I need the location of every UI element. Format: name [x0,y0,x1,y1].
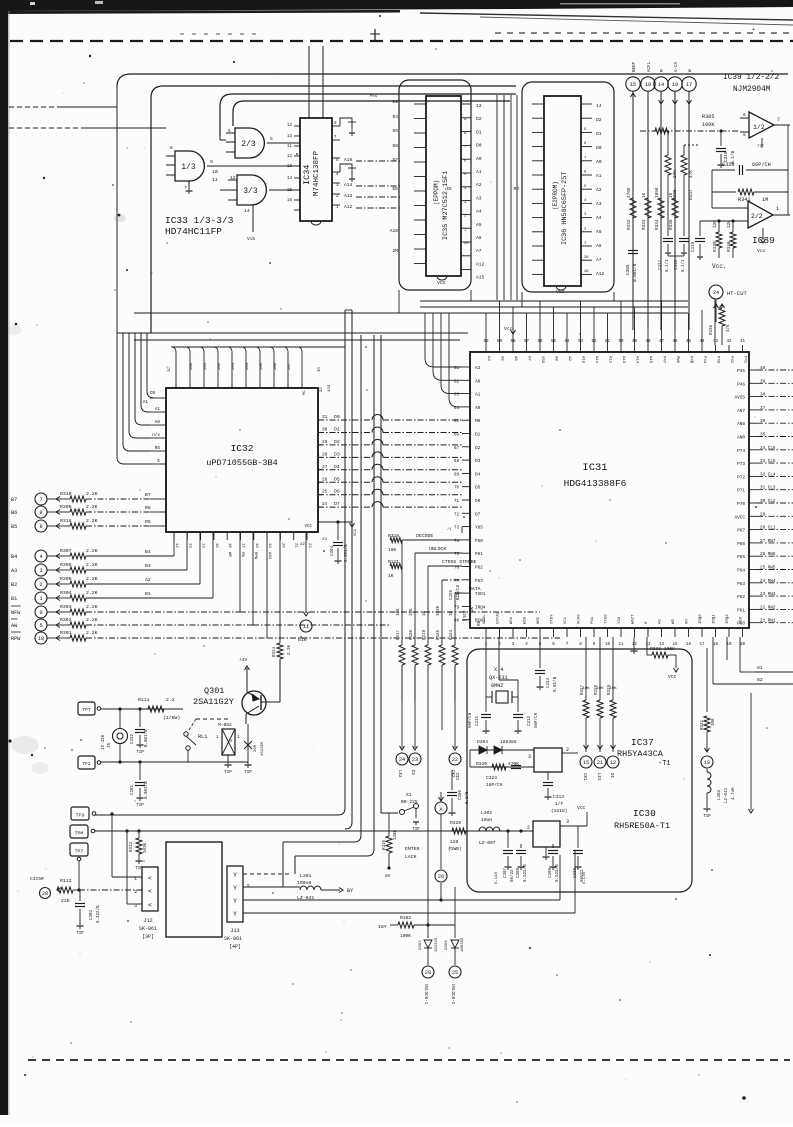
svg-text:2SA11G2Y: 2SA11G2Y [193,697,234,707]
svg-text:24: 24 [322,502,328,507]
svg-text:VCC: VCC [437,280,446,286]
svg-text:A5: A5 [500,356,504,361]
svg-text:D2: D2 [410,770,414,776]
svg-text:133: 133 [328,384,332,392]
svg-text:PW0: PW0 [675,356,679,364]
svg-text:C311: C311 [476,715,480,726]
svg-text:26: 26 [584,270,589,274]
svg-text:2: 2 [39,582,42,588]
svg-text:D3: D3 [475,459,481,464]
svg-text:22: 22 [300,543,305,547]
svg-text:12: 12 [287,124,293,128]
svg-text:C304: C304 [331,545,335,556]
svg-text:23: 23 [322,538,327,542]
svg-text:A82: A82 [267,552,271,560]
svg-text:(3216): (3216) [551,808,568,814]
svg-text:M74HC138FP: M74HC138FP [313,150,321,196]
svg-text:LZ-007: LZ-007 [479,840,496,846]
svg-text:16: 16 [686,643,692,647]
svg-text:A3: A3 [476,195,482,201]
svg-text:Vcb: Vcb [247,236,255,242]
svg-text:0.1/3: 0.1/3 [665,259,670,272]
svg-text:A0: A0 [596,159,602,165]
svg-text:10K: 10K [388,547,397,553]
svg-text:ACFL: ACFL [648,61,652,72]
svg-text:VSS: VSS [540,356,544,364]
svg-text:10K: 10K [712,718,716,726]
svg-text:43: 43 [713,340,719,344]
svg-text:26: 26 [438,874,444,880]
svg-text:5: 5 [270,136,273,142]
svg-text:18: 18 [713,643,719,647]
svg-text:14: 14 [658,82,664,88]
svg-text:IC37: IC37 [631,737,654,748]
svg-text:61: 61 [454,367,460,371]
svg-text:UNLOCK-1: UNLOCK-1 [423,984,427,1005]
svg-text:W20: W20 [524,616,528,624]
svg-text:12: 12 [610,760,616,766]
svg-text:C314: C314 [547,677,551,688]
svg-text:CIC5R: CIC5R [30,876,44,882]
svg-text:P47: P47 [662,356,666,364]
svg-text:P74: P74 [737,449,745,454]
svg-text:DATA: DATA [469,586,481,592]
svg-text:<: < [148,888,152,895]
svg-text:D2: D2 [334,439,340,445]
svg-text:72: 72 [454,513,460,517]
svg-text:1K: 1K [642,192,647,198]
svg-text:21: 21 [597,760,603,766]
svg-text:66P/CH: 66P/CH [752,162,771,168]
svg-text:188385: 188385 [500,739,517,745]
svg-text:IR: IR [318,367,322,372]
svg-text:77F: 77F [757,145,765,149]
svg-text:2B3: 2B3 [232,362,236,370]
svg-text:1/F: 1/F [555,801,564,807]
svg-text:69: 69 [454,473,460,477]
svg-text:-T1: -T1 [658,760,671,768]
svg-text:TIP: TIP [136,751,144,755]
svg-text:HDG413388F6: HDG413388F6 [564,478,627,489]
svg-text:A15: A15 [476,275,485,281]
svg-text:2.2K: 2.2K [86,590,98,596]
svg-text:R320: R320 [476,761,487,767]
svg-text:P60: P60 [475,539,483,544]
svg-text:R336: R336 [710,324,714,335]
svg-text:D4: D4 [392,114,398,120]
svg-text:LE1: LE1 [596,773,600,781]
svg-text:C306: C306 [459,789,463,800]
svg-text:D3M: D3M [254,744,258,752]
svg-text:D2: D2 [596,117,602,123]
svg-text:A0: A0 [475,406,481,411]
svg-text:EE: EE [446,186,452,192]
svg-text:0.001/B: 0.001/B [144,781,149,799]
svg-text:81: 81 [757,665,763,671]
svg-text:A7: A7 [527,356,531,361]
svg-text:D1: D1 [596,131,602,137]
svg-text:103K: 103K [437,605,441,616]
svg-text:13: 13 [476,103,482,109]
svg-text:41: 41 [740,340,746,344]
svg-text:VCC: VCC [354,528,358,536]
svg-text:A2: A2 [596,187,602,193]
svg-text:P71: P71 [737,489,745,494]
svg-text:E: E [157,459,160,464]
svg-text:47K: 47K [689,170,694,178]
svg-text:1/2: 1/2 [753,124,765,131]
svg-text:1S2355: 1S2355 [261,741,265,756]
svg-text:IC39 1/2-2/2: IC39 1/2-2/2 [723,74,779,82]
svg-text:IRQ0: IRQ0 [699,614,703,624]
svg-text:D5: D5 [392,128,398,134]
svg-text:P45: P45 [689,356,693,364]
svg-text:IC31: IC31 [582,462,607,474]
svg-text:76: 76 [454,567,460,571]
svg-text:R337: R337 [689,189,694,200]
svg-text:18P/CH: 18P/CH [486,782,503,788]
svg-text:6: 6 [228,128,231,134]
svg-text:2.2K: 2.2K [86,504,98,510]
svg-text:D1: D1 [476,129,482,135]
svg-text:AN6: AN6 [737,422,745,427]
svg-text:2.2K: 2.2K [86,491,98,497]
svg-text:R333: R333 [642,219,647,230]
svg-text:(EPPOM): (EPPOM) [433,180,440,205]
svg-text:Y: Y [233,911,237,918]
svg-text:J6: J6 [108,742,112,748]
svg-text:A5: A5 [476,222,482,228]
svg-text:VCC: VCC [556,289,565,295]
svg-text:IC: IC [168,367,172,372]
svg-text:A1: A1 [475,393,481,398]
svg-text:11: 11 [287,145,293,149]
svg-text:n/s: n/s [152,433,160,438]
svg-text:VCC: VCC [577,805,586,811]
svg-text:P73: P73 [737,462,745,467]
svg-text:EE: EE [392,186,398,192]
svg-text:Pcs: Pcs [370,95,378,99]
svg-text:A14: A14 [344,182,353,188]
svg-text:A2: A2 [145,577,151,583]
svg-text:0.1/8: 0.1/8 [465,791,470,804]
svg-text:R333: R333 [650,646,661,652]
svg-text:23: 23 [412,757,418,763]
svg-text:A0: A0 [155,420,161,425]
svg-text:WR: WR [227,552,231,557]
svg-text:A7: A7 [596,257,602,263]
svg-text:NFW: NFW [11,610,21,616]
svg-text:TXD1: TXD1 [475,592,486,597]
svg-text:RPW: RPW [253,552,257,560]
svg-text:50/22: 50/22 [510,869,515,882]
svg-text:DECODE: DECODE [416,533,433,539]
svg-text:TIP: TIP [224,771,232,775]
svg-text:2B1: 2B1 [204,362,208,370]
svg-text:C313: C313 [553,794,564,800]
svg-text:A1: A1 [596,173,602,179]
svg-text:R304: R304 [60,590,72,596]
svg-text:AS: AS [659,619,663,624]
svg-text:C319: C319 [692,241,696,252]
svg-text:27: 27 [322,465,328,470]
svg-text:WR: WR [672,619,676,624]
svg-text:I8Y: I8Y [378,924,387,930]
svg-text:A: A [439,807,442,813]
svg-text:A12: A12 [596,271,605,277]
svg-text:TXD0: TXD0 [605,614,609,624]
svg-text:PW: PW [240,552,244,557]
svg-text:R331: R331 [701,719,705,730]
svg-text:65: 65 [454,420,460,424]
svg-text:J12: J12 [143,918,152,924]
svg-text:P41: P41 [743,356,747,364]
svg-text:A1: A1 [476,169,482,175]
svg-text:10uH: 10uH [481,817,492,823]
svg-text:2.2K: 2.2K [86,604,98,610]
svg-text:A6: A6 [596,243,602,249]
svg-text:32: 32 [320,387,324,392]
svg-text:CE2: CE2 [457,772,461,780]
svg-text:D3: D3 [334,451,340,457]
svg-text:56P/CH: 56P/CH [534,712,539,728]
svg-text:R313: R313 [130,841,134,852]
svg-text:P67: P67 [737,529,745,534]
svg-text:R6: R6 [145,505,151,511]
svg-text:9: 9 [39,510,42,516]
svg-text:D6: D6 [334,489,340,495]
svg-text:(1WB): (1WB) [448,846,462,852]
svg-text:27K: 27K [673,170,678,178]
svg-text:8: 8 [39,524,42,530]
svg-text:R5: R5 [155,446,161,451]
svg-text:R308: R308 [60,562,72,568]
svg-text:S1: S1 [406,792,412,798]
svg-text:16: 16 [227,543,231,548]
svg-text:A1: A1 [143,400,149,405]
svg-text:30: 30 [322,427,328,432]
svg-text:A0: A0 [476,156,482,162]
svg-text:15: 15 [214,543,218,548]
svg-text:TF2: TF2 [82,761,91,767]
svg-text:17: 17 [699,643,705,647]
svg-text:12: 12 [230,175,236,181]
svg-text:CB: CB [150,391,156,396]
svg-text:XTAL: XTAL [483,614,487,624]
svg-text:A4: A4 [596,215,602,221]
svg-text:Y: Y [233,885,237,892]
svg-text:B.001/B: B.001/B [144,729,149,747]
svg-text:WAIT: WAIT [632,614,636,624]
svg-text:16: 16 [287,199,293,203]
svg-text:28: 28 [322,452,328,457]
svg-text:12: 12 [287,155,293,159]
svg-text:RH5YA43CA: RH5YA43CA [617,749,664,759]
svg-text:/1: /1 [447,527,452,532]
svg-text:A9: A9 [567,356,571,361]
svg-text:2: 2 [134,889,137,895]
svg-text:6: 6 [743,112,746,118]
svg-text:0.301/B: 0.301/B [344,544,349,562]
svg-text:P62: P62 [737,595,745,600]
svg-text:1M: 1M [762,197,768,203]
svg-text:A3: A3 [11,568,17,574]
svg-text:11: 11 [212,177,218,183]
svg-text:L302: L302 [481,810,492,816]
svg-text:D6: D6 [392,143,398,149]
svg-text:<: < [148,902,152,909]
svg-text:24: 24 [713,290,719,296]
svg-text:100K: 100K [400,933,411,939]
svg-text:2B6: 2B6 [274,362,278,370]
svg-text:VCC: VCC [668,674,677,680]
svg-text:uPD71055GB-3B4: uPD71055GB-3B4 [206,458,277,468]
svg-text:P61: P61 [737,608,745,613]
svg-text:2B0: 2B0 [190,362,194,370]
svg-text:12: 12 [632,643,638,647]
svg-text:C332: C332 [131,733,135,744]
svg-text:R309: R309 [60,504,72,510]
svg-text:5: 5 [743,132,746,138]
svg-text:A3: A3 [596,201,602,207]
svg-text:R340: R340 [727,241,732,252]
svg-text:E-L30: E-L30 [583,871,587,884]
svg-text:13: 13 [287,135,293,139]
svg-text:IC39: IC39 [752,235,775,246]
svg-text:0.322/B: 0.322/B [523,864,528,882]
svg-text:R305: R305 [702,114,714,120]
svg-text:10K: 10K [582,687,590,691]
svg-text:LE2: LE2 [397,770,401,778]
svg-text:24: 24 [399,757,405,763]
svg-text:17: 17 [686,82,692,88]
svg-text:D7: D7 [392,157,398,163]
svg-text:1K: 1K [423,610,427,616]
svg-text:+: + [752,27,755,33]
svg-text:20: 20 [740,643,746,647]
svg-text:D0: D0 [476,143,482,149]
svg-text:2.2: 2.2 [166,697,175,703]
svg-text:A4: A4 [476,209,482,215]
svg-text:R336: R336 [673,189,678,200]
svg-text:NMI: NMI [537,617,541,624]
svg-text:P45: P45 [737,369,745,374]
svg-text:RE: RE [478,620,482,626]
svg-text:B7: B7 [11,497,17,503]
svg-text:D2: D2 [392,99,398,105]
svg-text:25: 25 [464,242,469,246]
svg-text:C308: C308 [517,867,521,878]
svg-text:0.322/B: 0.322/B [555,864,560,882]
svg-text:2M: 2M [392,248,398,254]
svg-text:P63: P63 [475,579,483,584]
svg-text:62: 62 [454,380,460,384]
svg-text:7: 7 [39,497,42,503]
svg-text:20: 20 [425,970,431,976]
svg-text:A6: A6 [476,235,482,241]
svg-text:B7: B7 [145,492,151,498]
svg-text:A1: A1 [155,407,161,412]
svg-text:R332: R332 [627,219,632,230]
svg-text:A16: A16 [390,228,399,234]
svg-text:P62: P62 [475,566,483,571]
svg-text:L303: L303 [718,789,722,800]
svg-text:47K: 47K [727,324,731,332]
svg-text:1/3: 1/3 [181,163,196,172]
svg-text:P63: P63 [737,582,745,587]
svg-text:SCK0: SCK0 [578,614,582,624]
svg-text:R112: R112 [60,878,72,884]
svg-text:13: 13 [287,165,293,169]
svg-text:TF9: TF9 [76,813,85,819]
svg-text:8MHZ: 8MHZ [491,683,503,689]
svg-text:[3P]: [3P] [142,934,154,940]
svg-text:120: 120 [450,839,459,845]
svg-text:IRQ2: IRQ2 [726,614,730,624]
svg-text:71: 71 [454,500,460,504]
svg-text:12: 12 [174,543,178,548]
svg-text:BEEP: BEEP [633,61,637,72]
svg-text:10: 10 [38,636,44,642]
svg-text:D6: D6 [475,499,481,504]
svg-text:7: 7 [584,156,586,160]
svg-text:EXTAL: EXTAL [497,611,501,624]
svg-text:AVSS: AVSS [734,396,745,401]
svg-text:TP7: TP7 [75,849,84,855]
svg-text:0.01/B: 0.01/B [553,676,558,692]
svg-text:WD1: WD1 [510,616,514,624]
svg-text:15: 15 [287,189,293,193]
svg-text:70: 70 [454,487,460,491]
svg-text:A15: A15 [648,356,652,364]
svg-text:IC33 1/3-3/3: IC33 1/3-3/3 [165,215,234,226]
svg-text:TPM: TPM [75,831,84,837]
svg-text:64: 64 [454,407,460,411]
svg-text:CTRSG STROBE: CTRSG STROBE [442,559,477,565]
svg-text:E-110: E-110 [495,871,499,884]
svg-text:3: 3 [134,903,137,909]
svg-text:10: 10 [605,643,611,647]
svg-text:A7: A7 [476,248,482,254]
svg-text:P46: P46 [737,382,745,387]
svg-text:18: 18 [254,543,258,548]
svg-text:IRQ1: IRQ1 [713,614,717,624]
svg-text:C303: C303 [90,909,94,920]
svg-text:BY: BY [347,888,354,894]
svg-text:A5: A5 [596,229,602,235]
svg-text:Y85: Y85 [475,526,483,531]
svg-text:B6: B6 [11,510,17,516]
svg-text:HD74HC11FP: HD74HC11FP [165,226,222,237]
svg-text:P70: P70 [737,502,745,507]
svg-text:STBY: STBY [551,614,555,624]
svg-text:M-082: M-082 [218,722,232,728]
svg-text:2B7: 2B7 [288,362,292,370]
svg-text:B5: B5 [11,524,17,530]
svg-text:TPT: TPT [82,707,91,713]
svg-text:C324: C324 [486,775,497,781]
svg-text:26: 26 [322,477,328,482]
svg-text:Y33: Y33 [618,616,622,624]
svg-text:A13: A13 [344,193,353,199]
svg-text:LACK: LACK [405,854,417,860]
svg-text:C325: C325 [450,589,454,600]
svg-text:R307: R307 [60,548,72,554]
svg-text:V-CN: V-CN [675,61,679,72]
svg-text:P61: P61 [475,552,483,557]
svg-text:476K: 476K [627,187,632,198]
svg-text:D7: D7 [475,512,481,517]
